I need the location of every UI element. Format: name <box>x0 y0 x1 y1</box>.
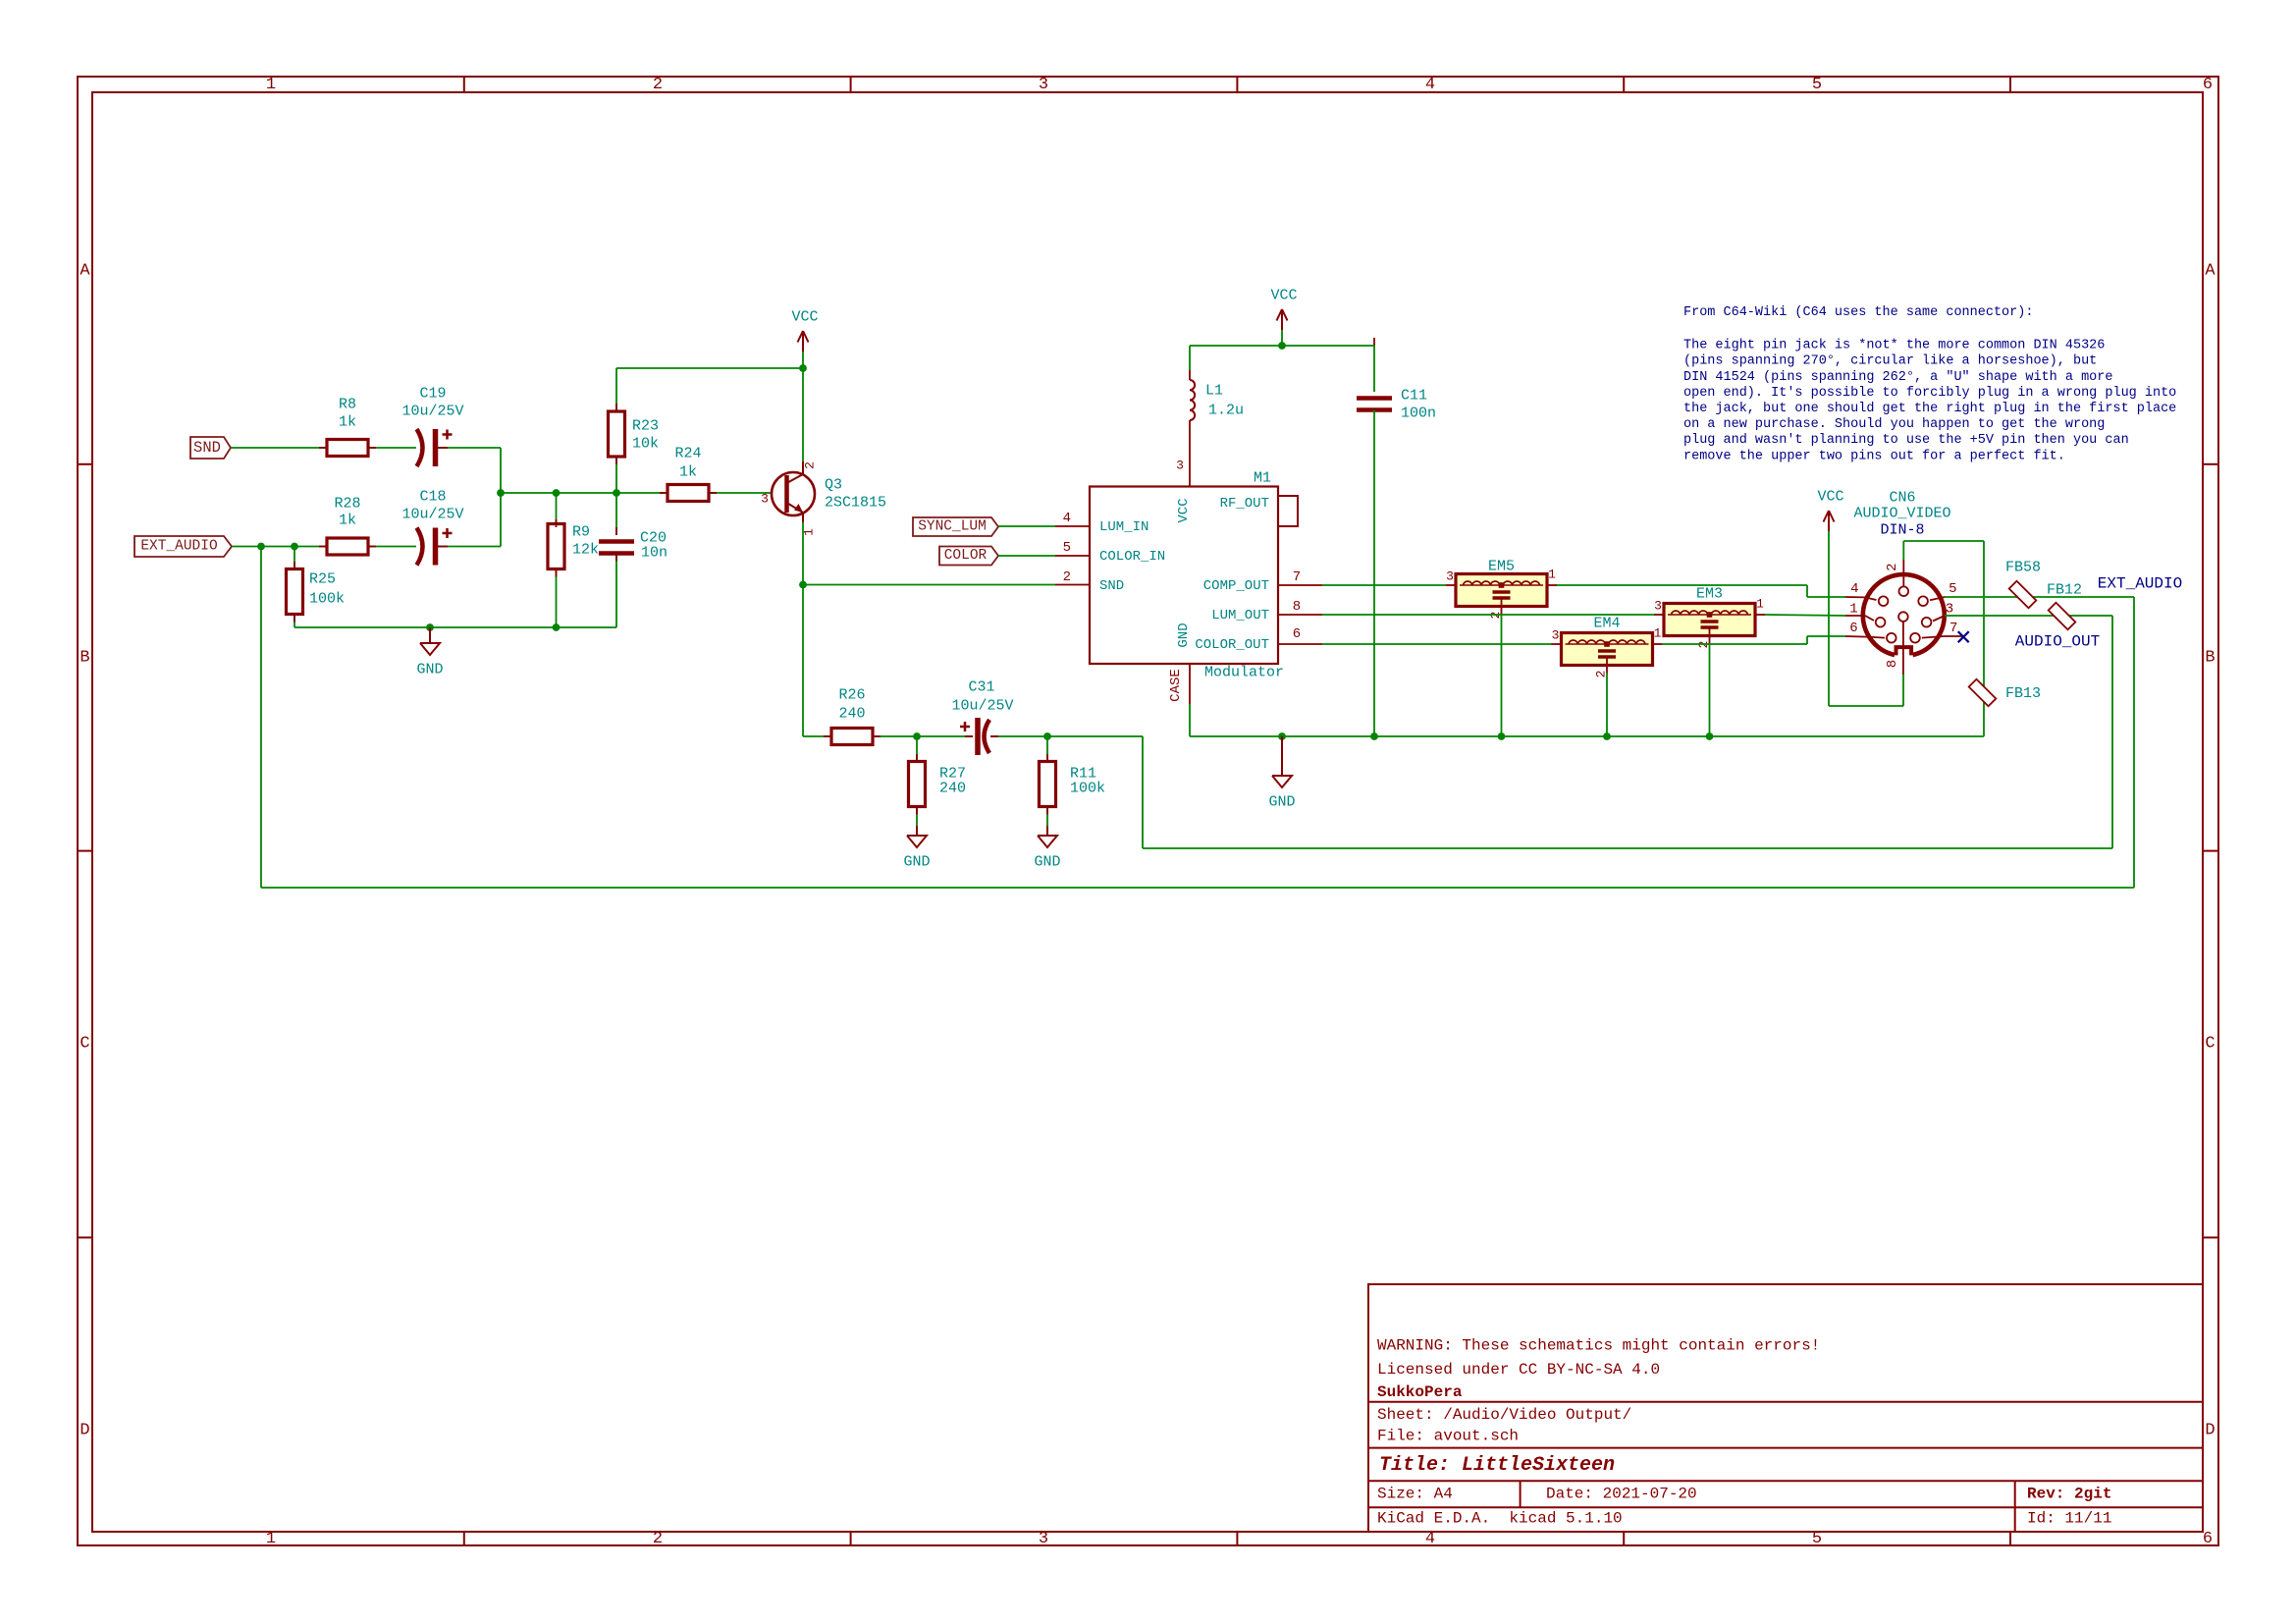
svg-text:R8: R8 <box>339 397 356 413</box>
svg-text:4: 4 <box>1425 76 1435 94</box>
svg-text:5: 5 <box>1949 581 1956 597</box>
svg-text:CN6: CN6 <box>1889 490 1915 507</box>
svg-text:GND: GND <box>903 854 930 871</box>
svg-text:R28: R28 <box>334 496 360 513</box>
svg-text:SYNC_LUM: SYNC_LUM <box>918 519 987 535</box>
svg-text:1k: 1k <box>339 414 356 431</box>
svg-text:2: 2 <box>1885 563 1900 570</box>
svg-text:100n: 100n <box>1401 406 1436 422</box>
svg-text:C11: C11 <box>1401 388 1427 405</box>
svg-text:L1: L1 <box>1205 383 1223 400</box>
svg-text:240: 240 <box>838 706 865 723</box>
svg-text:D: D <box>80 1422 89 1440</box>
svg-text:C31: C31 <box>968 679 994 696</box>
svg-text:R24: R24 <box>674 446 701 462</box>
svg-text:2: 2 <box>653 1530 663 1548</box>
svg-text:VCC: VCC <box>1270 288 1297 304</box>
svg-text:VCC: VCC <box>1176 498 1192 522</box>
svg-text:R26: R26 <box>838 687 865 704</box>
svg-text:RF_OUT: RF_OUT <box>1220 496 1269 512</box>
svg-text:KiCad E.D.A. kicad 5.1.10: KiCad E.D.A. kicad 5.1.10 <box>1377 1510 1623 1528</box>
svg-text:2: 2 <box>1594 671 1609 678</box>
svg-text:The eight pin jack is *not* th: The eight pin jack is *not* the more com… <box>1683 339 2105 353</box>
svg-text:12k: 12k <box>572 542 599 559</box>
svg-text:GND: GND <box>416 662 443 678</box>
svg-text:240: 240 <box>939 781 966 797</box>
svg-text:2: 2 <box>1063 569 1071 585</box>
svg-text:1: 1 <box>1756 597 1764 612</box>
svg-text:1: 1 <box>1548 568 1556 582</box>
svg-text:3: 3 <box>1946 601 1953 617</box>
svg-text:2: 2 <box>803 461 818 469</box>
svg-text:GND: GND <box>1176 623 1192 647</box>
svg-text:5: 5 <box>1812 76 1822 94</box>
svg-text:3: 3 <box>1176 459 1184 473</box>
svg-text:Sheet: /Audio/Video Output/: Sheet: /Audio/Video Output/ <box>1377 1406 1631 1424</box>
svg-text:plug and wasn't planning to us: plug and wasn't planning to use the +5V … <box>1683 433 2129 448</box>
svg-text:3: 3 <box>1039 76 1048 94</box>
svg-text:7: 7 <box>1949 621 1957 636</box>
svg-text:A: A <box>80 262 90 281</box>
svg-text:Licensed under CC BY-NC-SA 4.0: Licensed under CC BY-NC-SA 4.0 <box>1377 1361 1660 1379</box>
svg-text:10k: 10k <box>632 436 659 453</box>
svg-text:6: 6 <box>1849 621 1857 636</box>
svg-text:C: C <box>80 1035 89 1054</box>
svg-text:100k: 100k <box>309 591 345 608</box>
svg-text:M1: M1 <box>1254 470 1271 487</box>
svg-text:3: 3 <box>761 492 769 507</box>
svg-text:DIN-8: DIN-8 <box>1880 522 1924 539</box>
svg-text:CASE: CASE <box>1168 669 1184 702</box>
svg-text:10u/25V: 10u/25V <box>401 507 463 523</box>
svg-text:Q3: Q3 <box>825 477 842 494</box>
svg-text:1: 1 <box>266 76 276 94</box>
svg-text:FB13: FB13 <box>2005 685 2041 702</box>
svg-text:1k: 1k <box>339 513 356 529</box>
svg-text:VCC: VCC <box>791 309 818 326</box>
svg-text:1.2u: 1.2u <box>1208 403 1244 419</box>
svg-text:WARNING: These schematics migh: WARNING: These schematics might contain … <box>1377 1336 1820 1354</box>
svg-text:COMP_OUT: COMP_OUT <box>1203 578 1269 594</box>
svg-text:Size: A4: Size: A4 <box>1377 1486 1453 1503</box>
svg-text:Modulator: Modulator <box>1204 665 1284 681</box>
svg-text:COLOR: COLOR <box>944 548 988 564</box>
svg-text:AUDIO_VIDEO: AUDIO_VIDEO <box>1853 506 1950 522</box>
svg-text:GND: GND <box>1268 794 1295 811</box>
svg-text:R9: R9 <box>572 524 590 541</box>
svg-text:FB58: FB58 <box>2005 560 2041 576</box>
svg-text:4: 4 <box>1063 511 1071 526</box>
svg-text:Date: 2021-07-20: Date: 2021-07-20 <box>1546 1486 1697 1503</box>
svg-text:on a new purchase. Should you: on a new purchase. Should you happen to … <box>1683 417 2105 432</box>
svg-text:C: C <box>2205 1035 2215 1054</box>
svg-text:LUM_OUT: LUM_OUT <box>1211 608 1269 623</box>
svg-text:3: 3 <box>1446 569 1454 584</box>
svg-text:10n: 10n <box>641 545 667 562</box>
svg-text:(pins spanning 270°, circular: (pins spanning 270°, circular like a hor… <box>1683 354 2097 369</box>
svg-text:R25: R25 <box>309 571 336 588</box>
svg-text:6: 6 <box>1293 626 1301 642</box>
svg-text:10u/25V: 10u/25V <box>401 404 463 420</box>
svg-text:8: 8 <box>1293 599 1301 615</box>
svg-text:6: 6 <box>2203 1530 2213 1548</box>
svg-text:EM4: EM4 <box>1593 616 1620 632</box>
svg-text:A: A <box>2205 262 2216 281</box>
svg-text:Rev: 2git: Rev: 2git <box>2027 1486 2111 1503</box>
svg-text:remove the upper two pins out: remove the upper two pins out for a perf… <box>1683 449 2065 463</box>
svg-text:SND: SND <box>193 439 221 457</box>
svg-text:1k: 1k <box>679 464 697 481</box>
svg-text:Id: 11/11: Id: 11/11 <box>2027 1510 2111 1528</box>
svg-text:From C64-Wiki (C64 uses the sa: From C64-Wiki (C64 uses the same connect… <box>1683 305 2033 320</box>
svg-text:EM5: EM5 <box>1488 559 1515 575</box>
svg-text:SND: SND <box>1099 578 1124 594</box>
svg-text:B: B <box>80 649 89 668</box>
svg-text:6: 6 <box>2203 76 2213 94</box>
svg-text:2SC1815: 2SC1815 <box>825 495 886 512</box>
svg-text:C19: C19 <box>419 386 446 403</box>
svg-text:1: 1 <box>1849 601 1857 617</box>
svg-text:COLOR_OUT: COLOR_OUT <box>1195 637 1269 653</box>
svg-text:the jack, but one should get t: the jack, but one should get the right p… <box>1683 402 2176 416</box>
svg-text:open end). It's possible to fo: open end). It's possible to forcibly plu… <box>1683 386 2176 401</box>
svg-text:3: 3 <box>1552 628 1560 643</box>
svg-text:File: avout.sch: File: avout.sch <box>1377 1427 1519 1444</box>
svg-text:COLOR_IN: COLOR_IN <box>1099 549 1165 565</box>
svg-text:DIN 41524 (pins spanning 262°,: DIN 41524 (pins spanning 262°, a "U" sha… <box>1683 370 2112 385</box>
svg-text:3: 3 <box>1654 599 1662 614</box>
svg-text:FB12: FB12 <box>2047 582 2082 599</box>
svg-text:GND: GND <box>1034 854 1060 871</box>
svg-text:EXT_AUDIO: EXT_AUDIO <box>2098 575 2182 593</box>
svg-text:EXT_AUDIO: EXT_AUDIO <box>140 539 217 555</box>
svg-text:1: 1 <box>1654 626 1662 641</box>
svg-text:EM3: EM3 <box>1696 586 1723 603</box>
svg-text:2: 2 <box>653 76 663 94</box>
svg-text:R23: R23 <box>632 418 659 435</box>
svg-text:5: 5 <box>1063 540 1071 556</box>
svg-text:AUDIO_OUT: AUDIO_OUT <box>2015 633 2100 651</box>
svg-text:8: 8 <box>1885 660 1900 668</box>
svg-text:3: 3 <box>1039 1530 1048 1548</box>
svg-text:Title: LittleSixteen: Title: LittleSixteen <box>1379 1454 1615 1477</box>
svg-text:100k: 100k <box>1070 781 1105 797</box>
svg-text:C18: C18 <box>419 489 446 506</box>
svg-text:VCC: VCC <box>1817 489 1843 506</box>
svg-text:1: 1 <box>266 1530 276 1548</box>
svg-text:B: B <box>2205 649 2215 668</box>
svg-text:SukkoPera: SukkoPera <box>1377 1383 1463 1401</box>
svg-text:LUM_IN: LUM_IN <box>1099 519 1148 535</box>
svg-text:7: 7 <box>1293 569 1301 585</box>
svg-text:4: 4 <box>1850 581 1858 597</box>
svg-text:10u/25V: 10u/25V <box>951 698 1013 715</box>
svg-text:D: D <box>2205 1422 2215 1440</box>
